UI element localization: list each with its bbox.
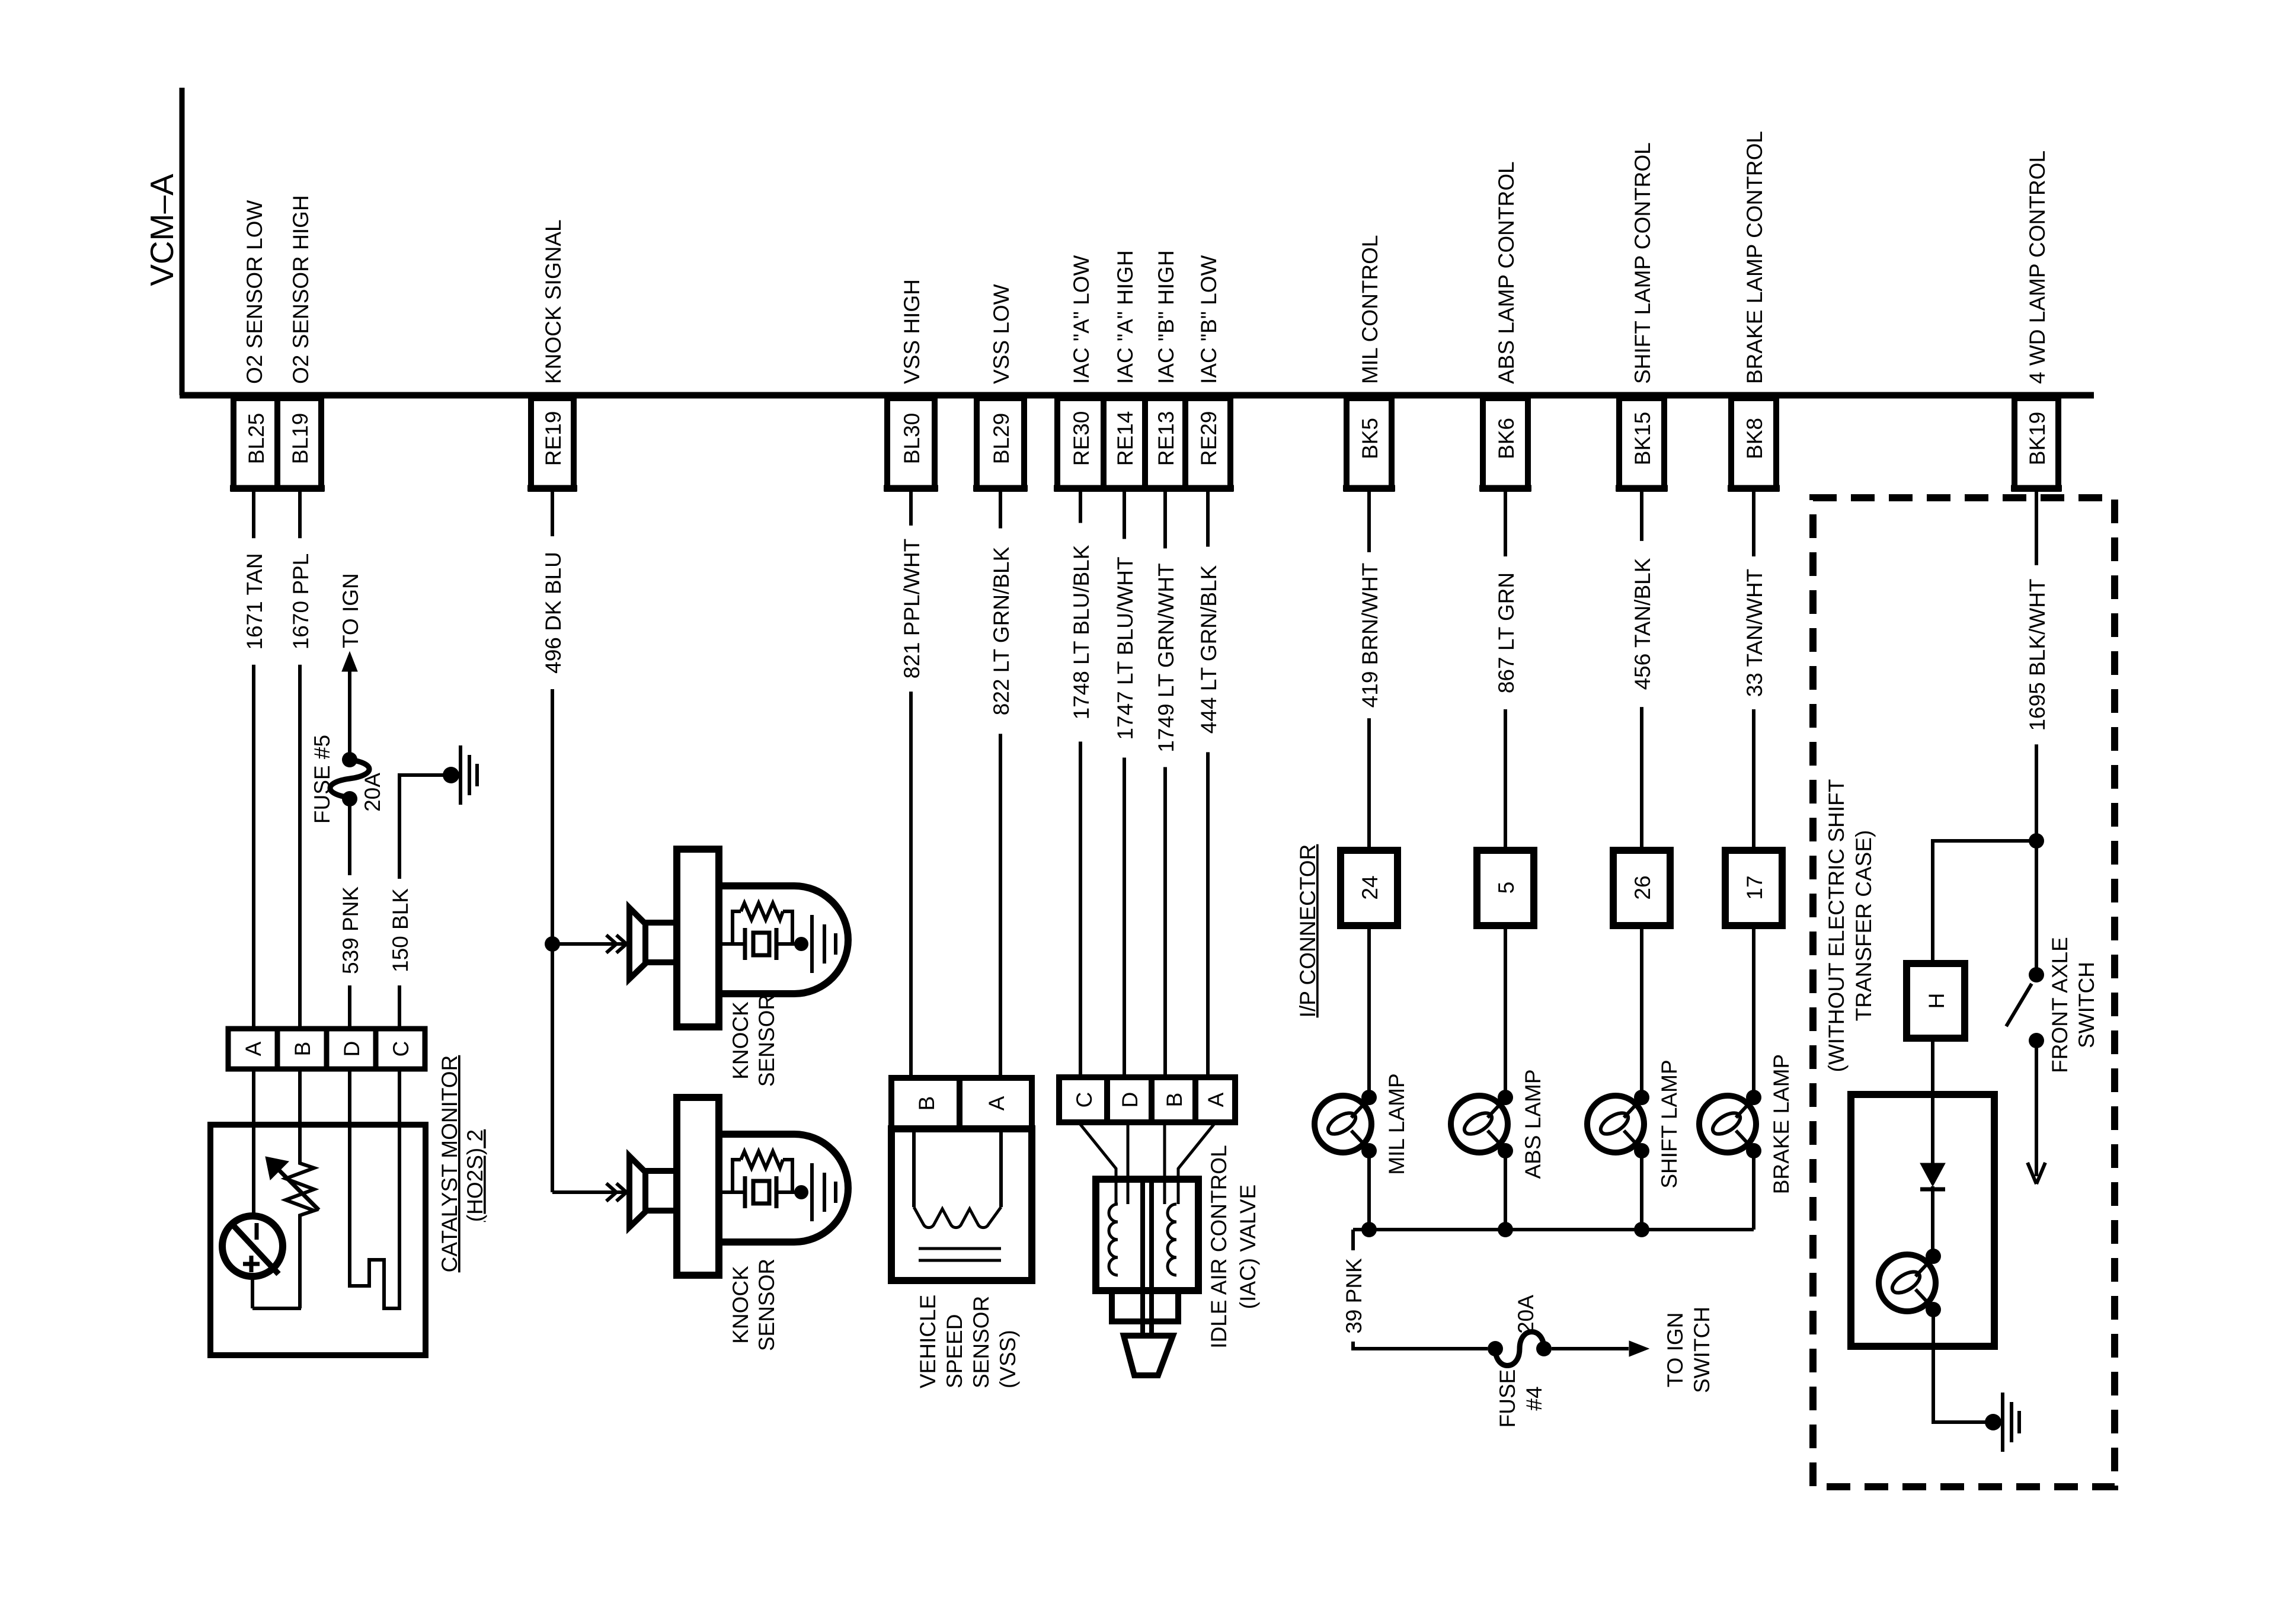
MIL LAMP bulb xyxy=(1315,1096,1371,1153)
svg-text:26: 26 xyxy=(1630,875,1655,900)
svg-text:VEHICLE: VEHICLE xyxy=(916,1295,940,1388)
ground G1 xyxy=(443,767,459,783)
svg-text:O2 SENSOR HIGH: O2 SENSOR HIGH xyxy=(289,195,313,384)
svg-text:1749 LT GRN/WHT: 1749 LT GRN/WHT xyxy=(1154,563,1178,752)
svg-text:ABS LAMP CONTROL: ABS LAMP CONTROL xyxy=(1494,161,1518,384)
wire source to bottom xyxy=(251,1276,254,1308)
svg-text:ABS LAMP: ABS LAMP xyxy=(1521,1069,1545,1179)
knock sensor connector cone xyxy=(629,1156,645,1227)
knock sensor bolt xyxy=(645,1171,677,1211)
wire 24 box to lamp xyxy=(1367,926,1371,1097)
wire 419 BRN/WHT upper segment xyxy=(1367,489,1371,552)
connector pin BK8 xyxy=(1731,398,1776,489)
svg-text:BRAKE LAMP: BRAKE LAMP xyxy=(1769,1054,1793,1194)
MIL LAMP terminal dots xyxy=(1361,1090,1377,1105)
arrow to IGN xyxy=(348,670,351,760)
piezo crystal square xyxy=(753,1181,769,1204)
svg-text:BK19: BK19 xyxy=(2025,412,2049,466)
svg-text:VSS LOW: VSS LOW xyxy=(989,284,1013,384)
internal resistor of knock sensor xyxy=(733,1160,741,1192)
wire 33 TAN/WHT upper segment xyxy=(1752,489,1755,556)
svg-text:150 BLK: 150 BLK xyxy=(388,888,412,972)
knock sensor capsule xyxy=(719,886,848,994)
svg-text:VCM–A: VCM–A xyxy=(143,174,180,286)
svg-text:496 DK BLU: 496 DK BLU xyxy=(541,552,565,674)
wire lamp to ground xyxy=(1933,1310,1985,1422)
I/P connector pin box 17 xyxy=(1725,850,1782,926)
wire 1749 LT GRN/WHT lower segment xyxy=(1163,767,1167,1078)
svg-text:SHIFT LAMP CONTROL: SHIFT LAMP CONTROL xyxy=(1630,142,1655,384)
knock sensor internal ground xyxy=(794,937,808,951)
svg-text:1747 LT BLU/WHT: 1747 LT BLU/WHT xyxy=(1113,556,1137,740)
svg-text:KNOCK: KNOCK xyxy=(728,1266,753,1344)
IAC valve lower housing xyxy=(1112,1291,1178,1321)
arrow continuing from front axle switch xyxy=(2035,1041,2038,1176)
wire 419 BRN/WHT lower segment xyxy=(1367,718,1371,850)
svg-text:IDLE AIR CONTROL: IDLE AIR CONTROL xyxy=(1207,1145,1231,1348)
svg-text:1695 BLK/WHT: 1695 BLK/WHT xyxy=(2025,578,2049,731)
wire 539 PNK lower segment xyxy=(348,985,351,1029)
svg-text:4 WD LAMP CONTROL: 4 WD LAMP CONTROL xyxy=(2025,151,2049,384)
I/P connector pin box 26 xyxy=(1613,850,1670,926)
wire 1695 BLK/WHT upper segment xyxy=(2035,489,2038,565)
wire 1695 BLK/WHT lower segment xyxy=(2035,744,2038,841)
piezo plate left xyxy=(743,1176,747,1208)
svg-text:17: 17 xyxy=(1742,875,1767,900)
svg-text:822 LT GRN/BLK: 822 LT GRN/BLK xyxy=(989,546,1013,715)
I/P connector pin box 5 xyxy=(1477,850,1534,926)
svg-text:419 BRN/WHT: 419 BRN/WHT xyxy=(1358,563,1382,708)
svg-text:MIL LAMP: MIL LAMP xyxy=(1384,1073,1409,1174)
connector pin BL30 xyxy=(887,398,935,489)
wire SHIFT LAMP to ground bus xyxy=(1640,1151,1643,1230)
connector pin RE14 xyxy=(1104,398,1145,489)
wire 867 LT GRN upper segment xyxy=(1504,489,1507,556)
svg-text:BK6: BK6 xyxy=(1494,418,1518,459)
connector pin BK15 xyxy=(1619,398,1664,489)
connector pin BK5 xyxy=(1347,398,1392,489)
IAC wires from connector to valve xyxy=(1079,1122,1116,1204)
4WD lamp bulb xyxy=(1879,1254,1936,1311)
connector pin BK6 xyxy=(1483,398,1528,489)
svg-text:A: A xyxy=(1204,1092,1228,1107)
svg-text:B: B xyxy=(1162,1093,1187,1108)
svg-text:C: C xyxy=(1072,1092,1096,1108)
svg-text:39 PNK: 39 PNK xyxy=(1342,1258,1366,1334)
knock sensor feed arrows xyxy=(606,1183,616,1201)
svg-text:SWITCH: SWITCH xyxy=(2074,962,2099,1048)
svg-text:H: H xyxy=(1924,993,1949,1009)
svg-text:BK15: BK15 xyxy=(1630,412,1655,466)
wire 5 box to lamp xyxy=(1504,926,1507,1097)
4WD lamp terminal dots xyxy=(1926,1249,1941,1264)
wire MIL LAMP to ground bus xyxy=(1367,1151,1371,1230)
piezo plate right xyxy=(775,1176,779,1208)
wire 496 DK BLU lower segment xyxy=(551,689,554,944)
svg-text:456 TAN/BLK: 456 TAN/BLK xyxy=(1630,558,1655,690)
front axle switch xyxy=(2035,841,2038,975)
svg-text:BL25: BL25 xyxy=(244,413,268,464)
svg-text:BL30: BL30 xyxy=(900,413,924,464)
dashed option box (WITHOUT ELECTRIC SHIFT TRANSFER CASE) xyxy=(1813,498,2115,1487)
svg-text:1670 PPL: 1670 PPL xyxy=(289,553,313,650)
svg-text:RE19: RE19 xyxy=(541,411,565,466)
svg-text:SWITCH: SWITCH xyxy=(1690,1307,1714,1393)
IAC valve pintle shaft xyxy=(1140,1179,1145,1336)
svg-text:TRANSFER CASE): TRANSFER CASE) xyxy=(1851,830,1876,1022)
VSS connector B A xyxy=(891,1078,1032,1129)
svg-text:BK5: BK5 xyxy=(1358,418,1382,459)
piezo plate left xyxy=(743,928,747,960)
bottom wire of source-resistor loop xyxy=(252,1307,301,1310)
svg-text:867 LT GRN: 867 LT GRN xyxy=(1494,572,1518,693)
BRAKE LAMP terminal dots xyxy=(1746,1090,1761,1105)
svg-text:D: D xyxy=(1118,1092,1142,1108)
wire 444 LT GRN/BLK upper segment xyxy=(1206,489,1210,547)
svg-text:SENSOR: SENSOR xyxy=(969,1296,993,1388)
svg-text:RE13: RE13 xyxy=(1154,411,1178,466)
wire 26 box to lamp xyxy=(1640,926,1643,1097)
svg-text:(HO2S) 2: (HO2S) 2 xyxy=(463,1129,487,1222)
svg-text:RE29: RE29 xyxy=(1197,411,1221,466)
svg-text:821 PPL/WHT: 821 PPL/WHT xyxy=(900,539,924,678)
fuse FUSE #5 20A xyxy=(342,752,357,767)
svg-text:KNOCK: KNOCK xyxy=(728,1001,753,1080)
svg-text:(IAC) VALVE: (IAC) VALVE xyxy=(1236,1185,1260,1309)
fuse FUSE #4 20A xyxy=(1488,1341,1503,1356)
catalyst monitor (HO2S) 2 box xyxy=(210,1125,426,1355)
piezo crystal square xyxy=(753,933,769,955)
IAC coil B xyxy=(1168,1204,1176,1275)
diode xyxy=(1920,1163,1945,1186)
piezo element wire xyxy=(719,1190,745,1194)
wire 1671 TAN upper segment xyxy=(252,489,255,538)
lamp common bus wire xyxy=(1353,1228,1754,1231)
svg-text:BRAKE LAMP CONTROL: BRAKE LAMP CONTROL xyxy=(1742,131,1767,384)
svg-text:FUSE: FUSE xyxy=(1495,1369,1520,1428)
svg-text:RE30: RE30 xyxy=(1069,411,1093,466)
wire 496 DK BLU upper segment xyxy=(551,489,554,536)
svg-text:1748 LT BLU/BLK: 1748 LT BLU/BLK xyxy=(1069,545,1093,719)
wire 867 LT GRN lower segment xyxy=(1504,709,1507,850)
svg-text:BL19: BL19 xyxy=(288,413,312,464)
bus wire VCM-A xyxy=(180,392,2094,399)
svg-text:BL29: BL29 xyxy=(989,413,1013,464)
idle air control valve body xyxy=(1096,1179,1198,1291)
wire to knock sensor 2 xyxy=(551,944,554,1192)
connector pin BL25 xyxy=(234,398,277,489)
wire BRAKE LAMP to ground bus xyxy=(1752,1151,1755,1230)
svg-text:SENSOR: SENSOR xyxy=(754,1259,779,1351)
wire pin A into box xyxy=(252,1069,255,1216)
wire 150 BLK lower segment xyxy=(398,985,401,1029)
wire 150 BLK elbow to ground xyxy=(399,775,443,879)
svg-text:I/P CONNECTOR: I/P CONNECTOR xyxy=(1296,844,1320,1018)
connector pin RE19 xyxy=(531,398,574,489)
svg-text:IAC "A" LOW: IAC "A" LOW xyxy=(1069,255,1093,384)
knock sensor bolt xyxy=(645,923,677,962)
svg-text:A: A xyxy=(241,1041,266,1056)
wire 822 LT GRN/BLK upper segment xyxy=(999,489,1002,529)
wire 456 TAN/BLK lower segment xyxy=(1640,707,1643,850)
svg-text:D: D xyxy=(340,1041,364,1057)
internal resistor of knock sensor xyxy=(733,911,741,944)
svg-text:CATALYST MONITOR: CATALYST MONITOR xyxy=(437,1055,462,1273)
wire 444 LT GRN/BLK lower segment xyxy=(1206,752,1210,1077)
IAC connector C D B A xyxy=(1059,1077,1235,1122)
svg-text:VSS HIGH: VSS HIGH xyxy=(900,279,924,384)
svg-text:A: A xyxy=(984,1096,1009,1110)
wire 33 TAN/WHT lower segment xyxy=(1752,709,1755,850)
svg-text:33 TAN/WHT: 33 TAN/WHT xyxy=(1742,569,1767,697)
connector A B D C of catalyst monitor xyxy=(228,1029,425,1069)
ABS LAMP terminal dots xyxy=(1498,1090,1513,1105)
junction dots on lamp bus xyxy=(1361,1222,1377,1237)
wire 1671 TAN lower segment xyxy=(252,665,255,1029)
wire 539 PNK upper segment xyxy=(348,806,351,875)
svg-text:SENSOR: SENSOR xyxy=(754,994,779,1087)
knock sensor body xyxy=(677,1097,719,1275)
wire 1670 PPL upper segment xyxy=(298,489,302,538)
BRAKE LAMP bulb xyxy=(1699,1096,1756,1153)
connector pin RE29 xyxy=(1185,398,1230,489)
svg-text:IAC "A" HIGH: IAC "A" HIGH xyxy=(1113,250,1137,384)
wire 821 PPL/WHT upper segment xyxy=(909,489,913,526)
wire 1670 PPL lower segment xyxy=(298,665,302,1029)
svg-text:B: B xyxy=(290,1042,315,1057)
svg-text:#4: #4 xyxy=(1522,1386,1546,1410)
knock sensor 1 tap xyxy=(545,936,560,952)
svg-text:O2 SENSOR LOW: O2 SENSOR LOW xyxy=(242,200,267,384)
wire 822 LT GRN/BLK lower segment xyxy=(999,734,1002,1078)
VSS pickup coil xyxy=(912,1129,916,1207)
ground G2 xyxy=(1985,1414,2001,1430)
knock sensor internal ground xyxy=(794,1185,808,1199)
ABS LAMP bulb xyxy=(1451,1096,1508,1153)
variable resistor xyxy=(286,1131,314,1308)
svg-text:5: 5 xyxy=(1494,882,1518,894)
wire pin B into box xyxy=(298,1069,302,1131)
connector pin BL29 xyxy=(977,398,1024,489)
wire H to 4WD lamp box xyxy=(1931,1038,1934,1163)
vehicle speed sensor box xyxy=(891,1129,1032,1281)
svg-text:BK8: BK8 xyxy=(1742,418,1767,459)
svg-text:TO IGN: TO IGN xyxy=(1663,1313,1687,1388)
svg-text:SHIFT LAMP: SHIFT LAMP xyxy=(1657,1060,1681,1188)
connector pin BL19 xyxy=(277,398,321,489)
wire 17 box to lamp xyxy=(1752,926,1755,1097)
svg-text:444 LT GRN/BLK: 444 LT GRN/BLK xyxy=(1197,565,1221,734)
wire 456 TAN/BLK upper segment xyxy=(1640,489,1643,541)
VSS core lines xyxy=(919,1247,1001,1250)
4WD lamp box xyxy=(1851,1094,1994,1346)
IAC valve pintle cone xyxy=(1124,1336,1173,1375)
svg-text:FRONT AXLE: FRONT AXLE xyxy=(2048,937,2072,1073)
svg-text:MIL CONTROL: MIL CONTROL xyxy=(1358,235,1382,384)
piezo element wire xyxy=(719,942,745,946)
connector pin BK19 xyxy=(2014,398,2058,489)
wire 39 PNK lower segment xyxy=(1353,1342,1488,1349)
wire 1748 LT BLU/BLK lower segment xyxy=(1079,742,1082,1078)
I/P connector pin box 24 xyxy=(1341,850,1398,926)
svg-text:IAC "B" HIGH: IAC "B" HIGH xyxy=(1154,250,1178,384)
VCM-A module left edge line xyxy=(180,88,185,395)
svg-text:B: B xyxy=(914,1096,939,1111)
svg-text:RE14: RE14 xyxy=(1113,411,1137,466)
svg-text:KNOCK SIGNAL: KNOCK SIGNAL xyxy=(541,219,565,384)
wire to H connector xyxy=(1933,841,2036,964)
wire 1749 LT GRN/WHT upper segment xyxy=(1163,489,1167,549)
svg-text:24: 24 xyxy=(1358,875,1382,900)
svg-text:1671 TAN: 1671 TAN xyxy=(242,553,267,649)
junction dot 4WD branch xyxy=(2029,833,2044,849)
knock sensor capsule xyxy=(719,1134,848,1242)
svg-text:20A: 20A xyxy=(1514,1295,1538,1334)
connector H box xyxy=(1907,964,1965,1038)
svg-text:539 PNK: 539 PNK xyxy=(338,886,363,974)
knock sensor feed arrows xyxy=(606,935,616,953)
knock sensor body xyxy=(677,849,719,1027)
wire 1747 LT BLU/WHT lower segment xyxy=(1123,758,1126,1078)
SHIFT LAMP terminal dots xyxy=(1634,1090,1649,1105)
svg-text:IAC "B" LOW: IAC "B" LOW xyxy=(1197,255,1221,384)
connector pin RE13 xyxy=(1145,398,1185,489)
svg-text:20A: 20A xyxy=(360,773,385,812)
connector pin RE30 xyxy=(1057,398,1104,489)
svg-text:FUSE #5: FUSE #5 xyxy=(310,735,334,824)
IAC coil A xyxy=(1109,1204,1118,1275)
wire 1747 LT BLU/WHT upper segment xyxy=(1123,489,1126,539)
SHIFT LAMP bulb xyxy=(1587,1096,1644,1153)
wire pin D into box - heater element xyxy=(350,1069,399,1308)
arrow to IGN switch xyxy=(1552,1347,1629,1350)
piezo plate right xyxy=(775,928,779,960)
svg-text:(VSS): (VSS) xyxy=(996,1330,1020,1388)
svg-text:C: C xyxy=(389,1041,413,1057)
knock sensor connector cone xyxy=(629,908,645,979)
wire 39 PNK elbow xyxy=(1351,1230,1355,1250)
voltage source symbol xyxy=(222,1216,283,1276)
svg-text:(WITHOUT ELECTRIC SHIFT: (WITHOUT ELECTRIC SHIFT xyxy=(1824,779,1849,1073)
wire 1748 LT BLU/BLK upper segment xyxy=(1079,489,1082,523)
wire ABS LAMP to ground bus xyxy=(1504,1151,1507,1230)
svg-text:TO IGN: TO IGN xyxy=(338,573,363,648)
wire 821 PPL/WHT lower segment xyxy=(909,692,913,1078)
svg-text:SPEED: SPEED xyxy=(942,1314,967,1388)
